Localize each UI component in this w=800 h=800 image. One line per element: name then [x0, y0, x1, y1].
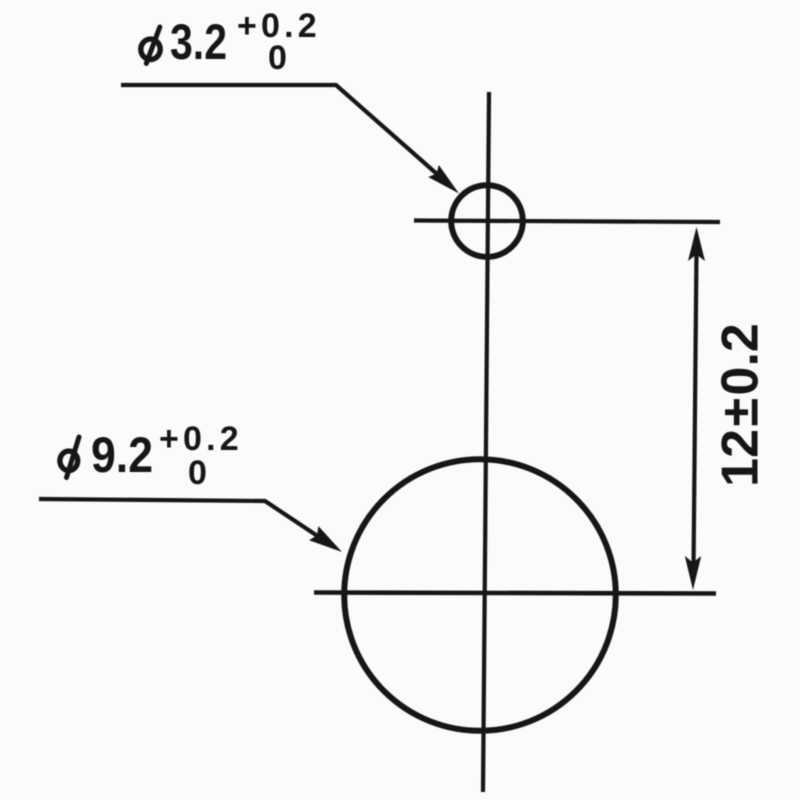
svg-text:12±0.2: 12±0.2	[712, 323, 770, 487]
node dimension arrowhead down	[685, 556, 701, 590]
node label phi symbol of 9.2 callout	[60, 437, 79, 478]
node small hole circle phi 3.2	[451, 185, 523, 257]
node dimension arrowhead up	[688, 227, 705, 261]
node large hole circle phi 9.2	[344, 459, 616, 731]
svg-text:0: 0	[188, 454, 207, 492]
node label phi symbol of 3.2 callout	[141, 27, 160, 64]
svg-text:0: 0	[268, 39, 287, 77]
svg-text:3.2: 3.2	[170, 14, 227, 70]
wire vertical centerline through both holes	[483, 92, 489, 792]
wire leader line for phi 9.2	[39, 499, 331, 545]
node leader arrowhead to large hole	[309, 526, 342, 552]
svg-text:+0.2: +0.2	[159, 420, 243, 458]
wire horizontal centerline of small hole (extension line to dimension)	[414, 221, 720, 223]
node leader arrowhead to small hole	[428, 165, 459, 194]
wire vertical dimension line 12 +/- 0.2	[694, 250, 697, 570]
wire leader line for phi 3.2	[121, 85, 446, 182]
svg-text:9.2: 9.2	[91, 427, 153, 483]
wire horizontal centerline of large hole (extension line to dimension)	[314, 593, 716, 594]
